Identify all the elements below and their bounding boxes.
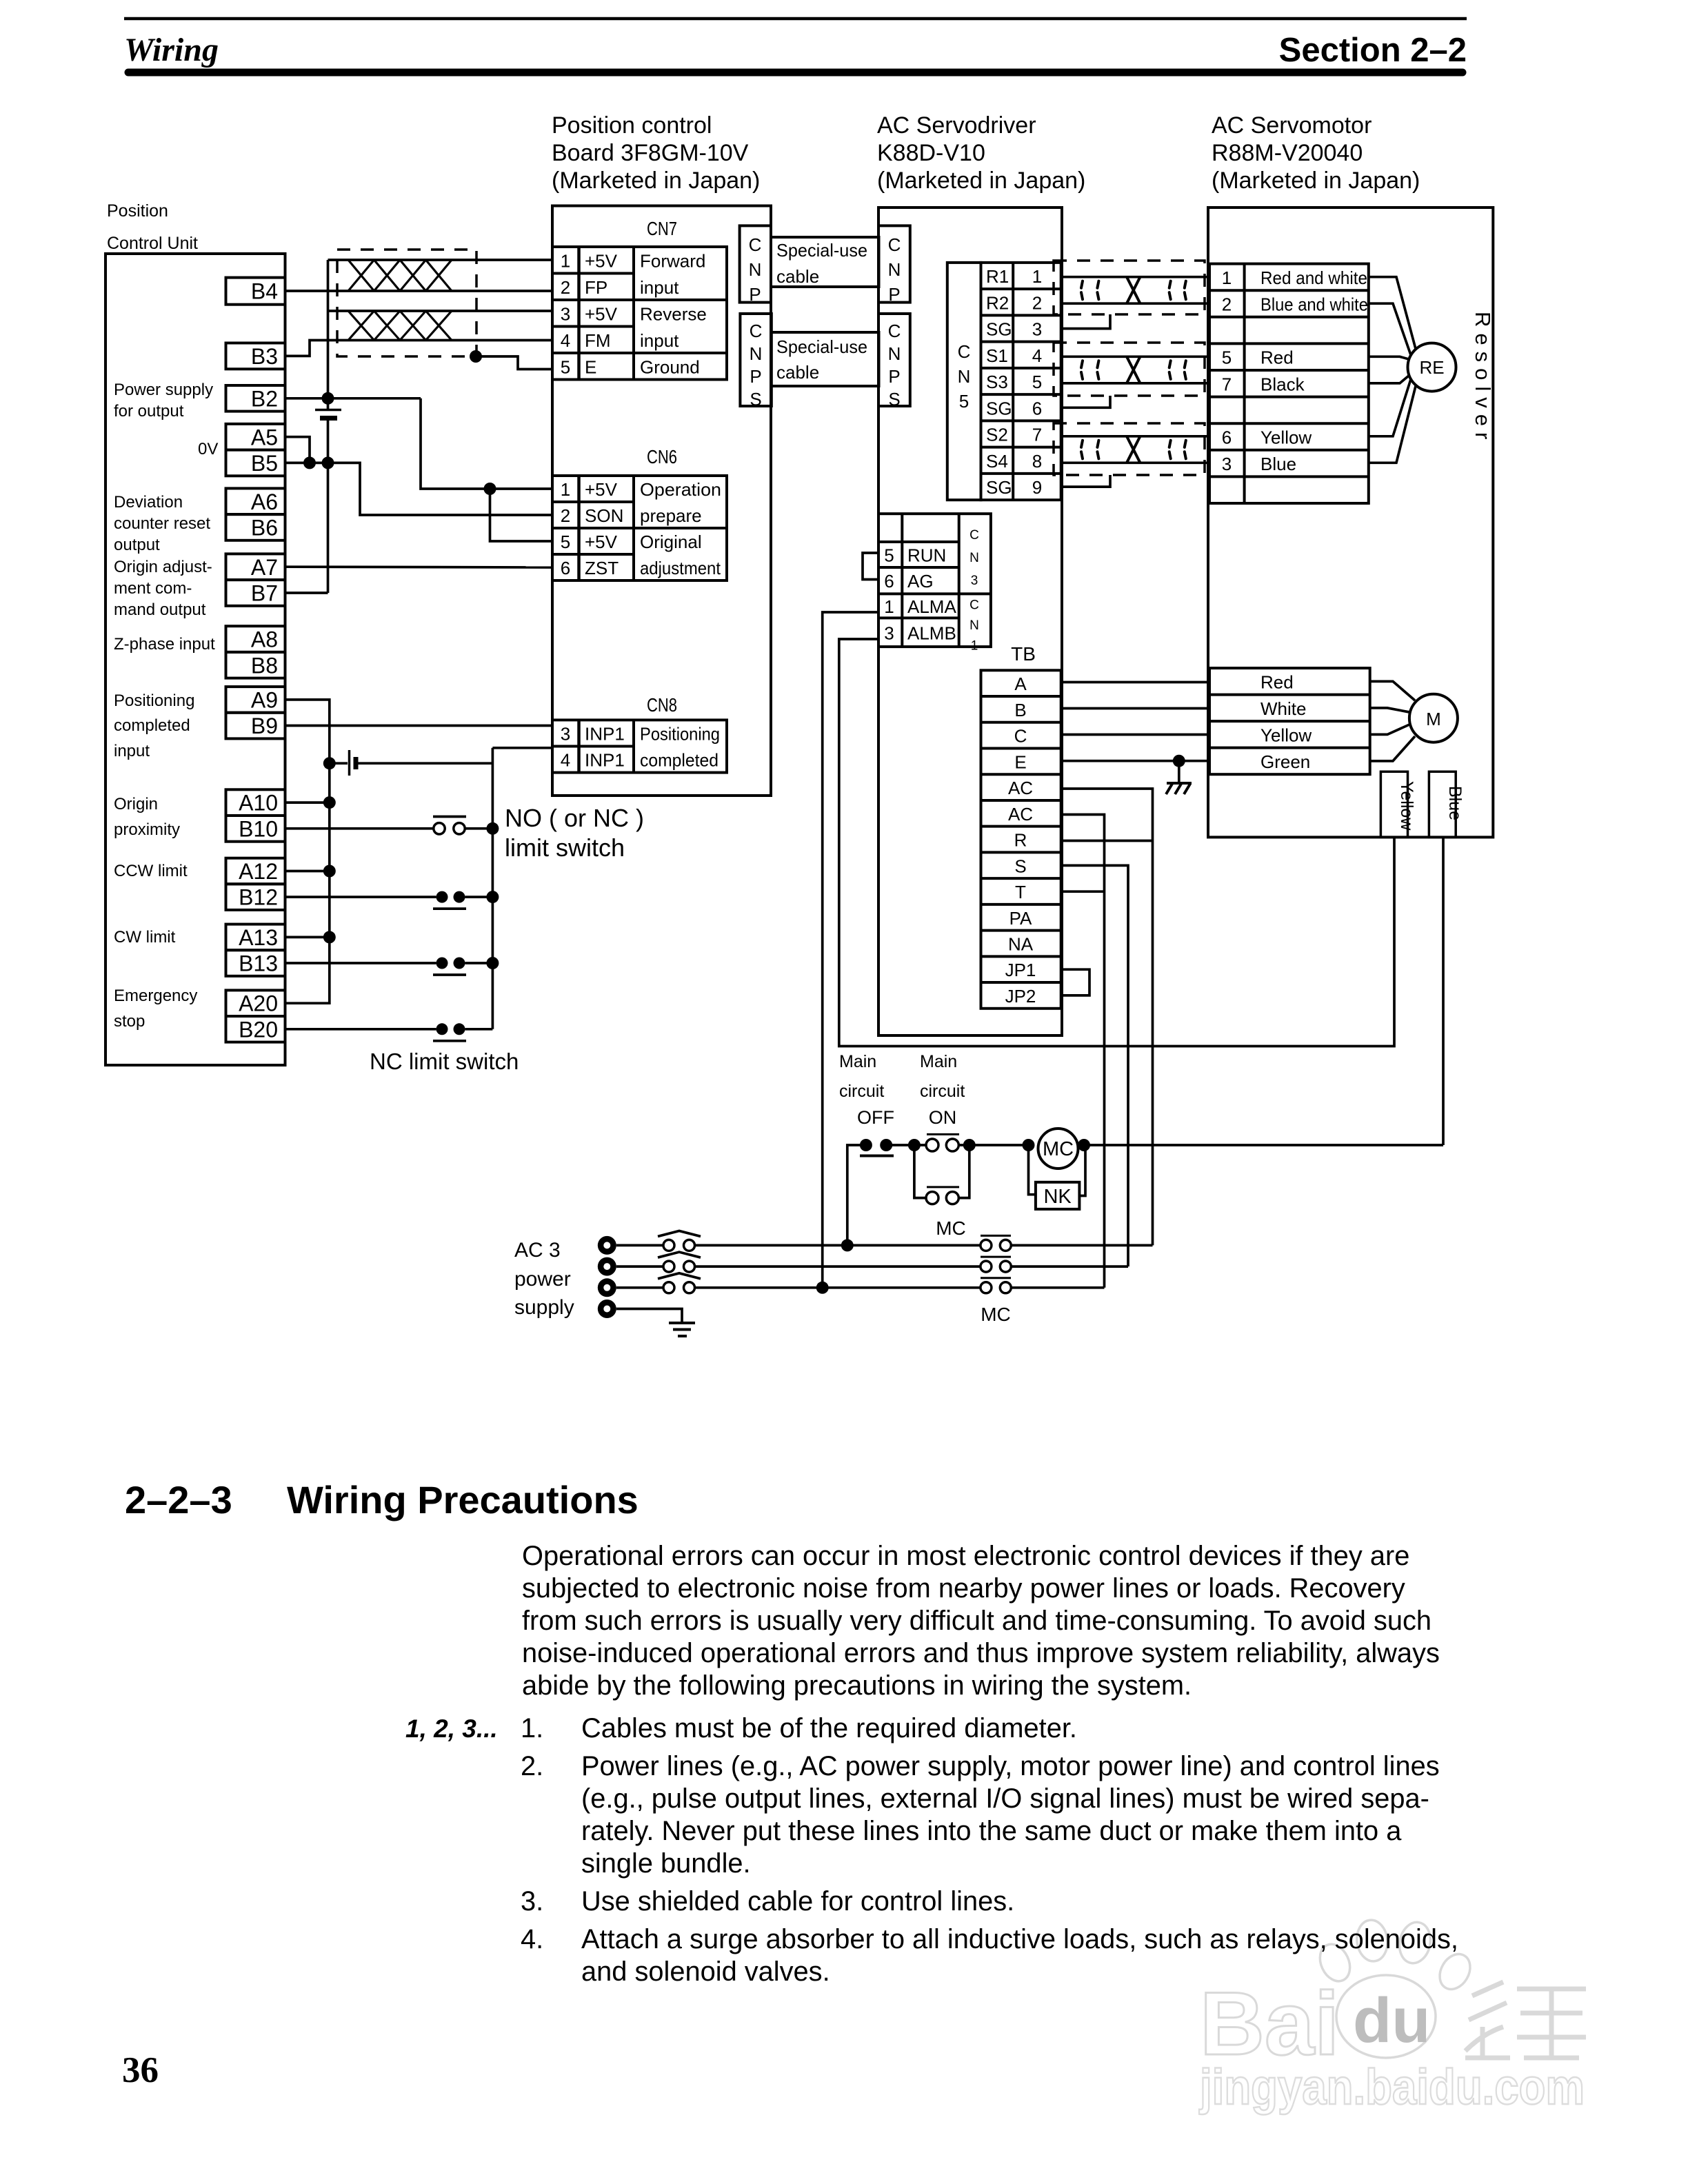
svg-text:AG: AG <box>907 571 934 591</box>
svg-text:ment com-: ment com- <box>114 579 192 598</box>
svg-text:Red: Red <box>1260 347 1294 368</box>
svg-text:9: 9 <box>1032 477 1042 498</box>
svg-text:A5: A5 <box>251 425 278 449</box>
svg-text:ZST: ZST <box>585 558 619 578</box>
svg-text:Original: Original <box>640 532 702 552</box>
svg-text:0V: 0V <box>198 440 218 458</box>
svg-text:+5V: +5V <box>585 303 618 324</box>
svg-text:N: N <box>969 618 979 633</box>
svg-text:4: 4 <box>561 750 570 771</box>
svg-text:RUN: RUN <box>907 545 946 566</box>
svg-text:36: 36 <box>122 2050 159 2090</box>
svg-text:from such errors is usually ve: from such errors is usually very difficu… <box>522 1606 1431 1636</box>
svg-text:S: S <box>1014 856 1026 876</box>
svg-text:NK: NK <box>1043 1186 1072 1208</box>
svg-text:White: White <box>1260 698 1306 719</box>
svg-text:C: C <box>888 234 901 255</box>
svg-text:completed: completed <box>114 716 190 735</box>
svg-text:circuit: circuit <box>920 1082 965 1101</box>
svg-text:SON: SON <box>585 505 623 526</box>
svg-text:Wiring Precautions: Wiring Precautions <box>287 1478 639 1521</box>
svg-text:S: S <box>888 389 900 410</box>
svg-text:Positioning: Positioning <box>640 723 720 744</box>
svg-text:Origin: Origin <box>114 795 158 813</box>
svg-text:4: 4 <box>1032 345 1042 366</box>
svg-text:2–2–3: 2–2–3 <box>125 1478 232 1521</box>
svg-text:AC Servodriver: AC Servodriver <box>877 112 1036 139</box>
svg-text:3: 3 <box>1222 454 1232 474</box>
svg-text:subjected to electronic noise: subjected to electronic noise from nearb… <box>522 1573 1405 1604</box>
svg-text:(Marketed in Japan): (Marketed in Japan) <box>552 168 760 194</box>
svg-text:Origin adjust-: Origin adjust- <box>114 558 212 576</box>
svg-text:S1: S1 <box>986 345 1008 366</box>
svg-text:2: 2 <box>561 505 570 526</box>
svg-text:Red: Red <box>1260 671 1294 692</box>
svg-text:A12: A12 <box>239 859 278 884</box>
svg-text:C: C <box>969 528 979 543</box>
svg-text:CN6: CN6 <box>647 446 677 467</box>
svg-text:3: 3 <box>1032 319 1042 340</box>
svg-text:4.: 4. <box>521 1924 543 1954</box>
svg-text:A20: A20 <box>239 991 278 1016</box>
svg-text:prepare: prepare <box>640 505 702 526</box>
svg-text:Forward: Forward <box>640 250 705 271</box>
svg-text:Positioning: Positioning <box>114 691 194 710</box>
svg-text:input: input <box>114 742 150 760</box>
svg-text:B12: B12 <box>239 885 278 910</box>
svg-text:Use shielded cable for control: Use shielded cable for control lines. <box>581 1886 1014 1917</box>
svg-text:C: C <box>749 234 762 255</box>
svg-text:B7: B7 <box>251 580 278 605</box>
svg-text:du: du <box>1353 1985 1430 2056</box>
svg-text:output: output <box>114 536 160 554</box>
svg-text:B20: B20 <box>239 1017 278 1042</box>
svg-text:AC: AC <box>1008 778 1033 798</box>
svg-text:E: E <box>585 356 596 377</box>
svg-text:MC: MC <box>936 1217 966 1239</box>
svg-text:B2: B2 <box>251 386 278 411</box>
svg-text:Operation: Operation <box>640 479 721 500</box>
svg-text:ALMA: ALMA <box>907 596 956 617</box>
svg-text:Green: Green <box>1260 751 1310 772</box>
svg-text:CW limit: CW limit <box>114 928 176 947</box>
svg-text:input: input <box>640 277 679 298</box>
svg-text:NC limit switch: NC limit switch <box>370 1049 519 1074</box>
svg-text:CCW limit: CCW limit <box>114 862 188 880</box>
svg-text:Blue: Blue <box>1445 786 1465 820</box>
svg-text:SG: SG <box>986 319 1012 340</box>
svg-text:stop: stop <box>114 1012 145 1031</box>
svg-text:2.: 2. <box>521 1751 543 1781</box>
svg-text:6: 6 <box>561 558 570 578</box>
svg-text:S2: S2 <box>986 425 1008 445</box>
svg-text:C: C <box>969 598 979 613</box>
svg-text:JP2: JP2 <box>1005 986 1036 1007</box>
svg-text:Deviation: Deviation <box>114 493 183 512</box>
svg-text:1: 1 <box>884 596 894 617</box>
svg-text:+5V: +5V <box>585 479 618 500</box>
svg-text:S3: S3 <box>986 372 1008 392</box>
svg-text:Operational errors can occur i: Operational errors can occur in most ele… <box>522 1541 1409 1571</box>
svg-text:B5: B5 <box>251 451 278 476</box>
svg-text:B4: B4 <box>251 279 278 304</box>
svg-text:cable: cable <box>776 266 819 287</box>
svg-text:Wiring: Wiring <box>124 32 219 68</box>
svg-text:T: T <box>1015 882 1026 902</box>
svg-text:S4: S4 <box>986 451 1008 472</box>
svg-text:AC Servomotor: AC Servomotor <box>1212 112 1371 139</box>
svg-text:5: 5 <box>1032 372 1042 392</box>
svg-text:Blue and white: Blue and white <box>1260 294 1368 315</box>
svg-text:A: A <box>1014 674 1027 694</box>
svg-text:Special-use: Special-use <box>776 336 867 357</box>
svg-text:+5V: +5V <box>585 250 618 271</box>
svg-text:Power supply: Power supply <box>114 381 213 399</box>
svg-text:P: P <box>888 366 900 387</box>
svg-text:S: S <box>750 389 761 410</box>
svg-text:A6: A6 <box>251 489 278 514</box>
svg-text:Red and white: Red and white <box>1260 267 1367 288</box>
svg-text:B3: B3 <box>251 344 278 369</box>
svg-text:PA: PA <box>1009 908 1032 929</box>
svg-text:B13: B13 <box>239 951 278 976</box>
svg-text:3.: 3. <box>521 1886 543 1917</box>
svg-text:adjustment: adjustment <box>640 558 721 578</box>
svg-text:NO ( or NC ): NO ( or NC ) <box>505 804 644 832</box>
svg-text:OFF: OFF <box>857 1107 894 1128</box>
svg-text:Position: Position <box>107 201 168 221</box>
svg-text:Main: Main <box>920 1052 957 1071</box>
svg-text:AC 3: AC 3 <box>514 1239 561 1262</box>
svg-text:1: 1 <box>561 250 570 271</box>
svg-text:5: 5 <box>884 545 894 566</box>
svg-text:ALMB: ALMB <box>907 623 956 643</box>
svg-text:1: 1 <box>971 639 978 654</box>
svg-text:INP1: INP1 <box>585 723 625 744</box>
svg-text:2: 2 <box>561 277 570 298</box>
svg-text:Control Unit: Control Unit <box>107 234 198 253</box>
svg-text:N: N <box>958 366 971 387</box>
svg-text:Attach a surge absorber to all: Attach a surge absorber to all inductive… <box>581 1924 1458 1954</box>
svg-text:CN7: CN7 <box>647 218 677 239</box>
svg-text:3: 3 <box>561 723 570 744</box>
svg-text:C: C <box>750 321 763 341</box>
svg-text:supply: supply <box>514 1296 574 1319</box>
svg-text:JP1: JP1 <box>1005 960 1036 980</box>
svg-text:completed: completed <box>640 750 719 771</box>
svg-text:R1: R1 <box>986 266 1009 287</box>
svg-text:Yellow: Yellow <box>1260 427 1312 448</box>
svg-text:6: 6 <box>1222 427 1232 448</box>
svg-text:B9: B9 <box>251 714 278 738</box>
svg-text:single bundle.: single bundle. <box>581 1848 751 1879</box>
svg-text:A10: A10 <box>239 791 278 816</box>
svg-text:5: 5 <box>561 532 570 552</box>
svg-text:Position control: Position control <box>552 112 712 139</box>
svg-text:(e.g., pulse output lines, ext: (e.g., pulse output lines, external I/O … <box>581 1783 1429 1814</box>
svg-text:R2: R2 <box>986 292 1009 313</box>
svg-text:Cables must be of the required: Cables must be of the required diameter. <box>581 1713 1077 1743</box>
svg-text:INP1: INP1 <box>585 750 625 771</box>
svg-text:proximity: proximity <box>114 820 180 839</box>
svg-text:2: 2 <box>1222 294 1232 315</box>
svg-text:counter reset: counter reset <box>114 514 210 533</box>
svg-text:FM: FM <box>585 330 611 351</box>
svg-text:1.: 1. <box>521 1713 543 1743</box>
svg-text:6: 6 <box>884 571 894 591</box>
svg-text:NA: NA <box>1008 934 1034 955</box>
svg-text:Bai: Bai <box>1200 1973 1339 2074</box>
svg-text:R88M-V20040: R88M-V20040 <box>1212 140 1363 166</box>
svg-text:and solenoid valves.: and solenoid valves. <box>581 1957 830 1987</box>
svg-text:Main: Main <box>839 1052 876 1071</box>
svg-text:A8: A8 <box>251 627 278 652</box>
svg-text:N: N <box>888 343 901 364</box>
svg-text:K88D-V10: K88D-V10 <box>877 140 985 166</box>
svg-text:limit switch: limit switch <box>505 833 625 862</box>
svg-text:noise-induced operational erro: noise-induced operational errors and thu… <box>522 1638 1440 1668</box>
svg-text:C: C <box>958 341 971 362</box>
svg-text:4: 4 <box>561 330 570 351</box>
svg-text:A13: A13 <box>239 925 278 950</box>
svg-text:input: input <box>640 330 679 351</box>
svg-text:P: P <box>888 284 900 305</box>
svg-text:Ground: Ground <box>640 356 700 377</box>
svg-text:Yellow: Yellow <box>1260 725 1312 745</box>
svg-text:jingyan.baidu.com: jingyan.baidu.com <box>1198 2060 1585 2115</box>
svg-text:RE: RE <box>1419 357 1444 378</box>
svg-text:B10: B10 <box>239 816 278 841</box>
svg-text:N: N <box>750 343 763 364</box>
svg-text:(Marketed in Japan): (Marketed in Japan) <box>1212 168 1420 194</box>
svg-text:3: 3 <box>561 303 570 324</box>
svg-text:N: N <box>969 551 979 565</box>
svg-text:1: 1 <box>561 479 570 500</box>
svg-text:B6: B6 <box>251 515 278 540</box>
svg-text:1, 2, 3...: 1, 2, 3... <box>405 1715 498 1743</box>
svg-text:C: C <box>888 321 901 341</box>
svg-text:SG: SG <box>986 477 1012 498</box>
svg-text:C: C <box>1014 726 1027 747</box>
svg-text:7: 7 <box>1032 425 1042 445</box>
svg-text:AC: AC <box>1008 804 1033 825</box>
svg-text:M: M <box>1426 709 1441 729</box>
svg-text:P: P <box>749 284 761 305</box>
svg-text:Board 3F8GM-10V: Board 3F8GM-10V <box>552 140 749 166</box>
svg-text:circuit: circuit <box>839 1082 884 1101</box>
svg-text:Z-phase input: Z-phase input <box>114 635 215 654</box>
svg-text:Power lines (e.g., AC power su: Power lines (e.g., AC power supply, moto… <box>581 1751 1440 1781</box>
svg-text:N: N <box>749 259 762 280</box>
svg-text:8: 8 <box>1032 451 1042 472</box>
svg-text:N: N <box>888 259 901 280</box>
svg-text:power: power <box>514 1268 571 1291</box>
svg-text:7: 7 <box>1222 374 1232 394</box>
svg-text:Emergency: Emergency <box>114 987 197 1005</box>
svg-text:MC: MC <box>1043 1138 1074 1160</box>
svg-text:(Marketed in Japan): (Marketed in Japan) <box>877 168 1085 194</box>
svg-text:P: P <box>750 366 761 387</box>
svg-text:mand output: mand output <box>114 600 206 619</box>
svg-text:Resolver: Resolver <box>1471 312 1495 445</box>
svg-text:6: 6 <box>1032 398 1042 418</box>
svg-text:B: B <box>1014 700 1026 720</box>
svg-text:for output: for output <box>114 402 184 421</box>
svg-text:MC: MC <box>981 1304 1011 1325</box>
svg-text:3: 3 <box>884 623 894 643</box>
svg-text:5: 5 <box>959 391 969 412</box>
svg-text:1: 1 <box>1032 266 1042 287</box>
svg-text:5: 5 <box>561 356 570 377</box>
svg-text:Black: Black <box>1260 374 1305 394</box>
svg-text:CN8: CN8 <box>647 694 677 716</box>
svg-text:1: 1 <box>1222 267 1232 288</box>
svg-text:Yellow: Yellow <box>1397 781 1416 831</box>
svg-text:Blue: Blue <box>1260 454 1296 474</box>
svg-text:A9: A9 <box>251 687 278 712</box>
svg-text:cable: cable <box>776 362 819 383</box>
svg-text:Section 2–2: Section 2–2 <box>1279 32 1467 69</box>
svg-text:Reverse: Reverse <box>640 303 707 324</box>
svg-text:B8: B8 <box>251 653 278 678</box>
svg-text:FP: FP <box>585 277 607 298</box>
svg-text:A7: A7 <box>251 555 278 580</box>
svg-text:SG: SG <box>986 398 1012 418</box>
svg-text:E: E <box>1014 751 1026 772</box>
svg-text:2: 2 <box>1032 292 1042 313</box>
svg-text:+5V: +5V <box>585 532 618 552</box>
svg-text:3: 3 <box>971 574 978 588</box>
svg-text:Special-use: Special-use <box>776 240 867 261</box>
svg-text:TB: TB <box>1011 643 1036 665</box>
svg-text:5: 5 <box>1222 347 1232 368</box>
svg-text:rately. Never put these lines: rately. Never put these lines into the s… <box>581 1816 1402 1846</box>
svg-text:ON: ON <box>929 1107 957 1128</box>
svg-text:abide by the following precaut: abide by the following precautions in wi… <box>522 1670 1192 1701</box>
svg-text:R: R <box>1014 830 1027 851</box>
